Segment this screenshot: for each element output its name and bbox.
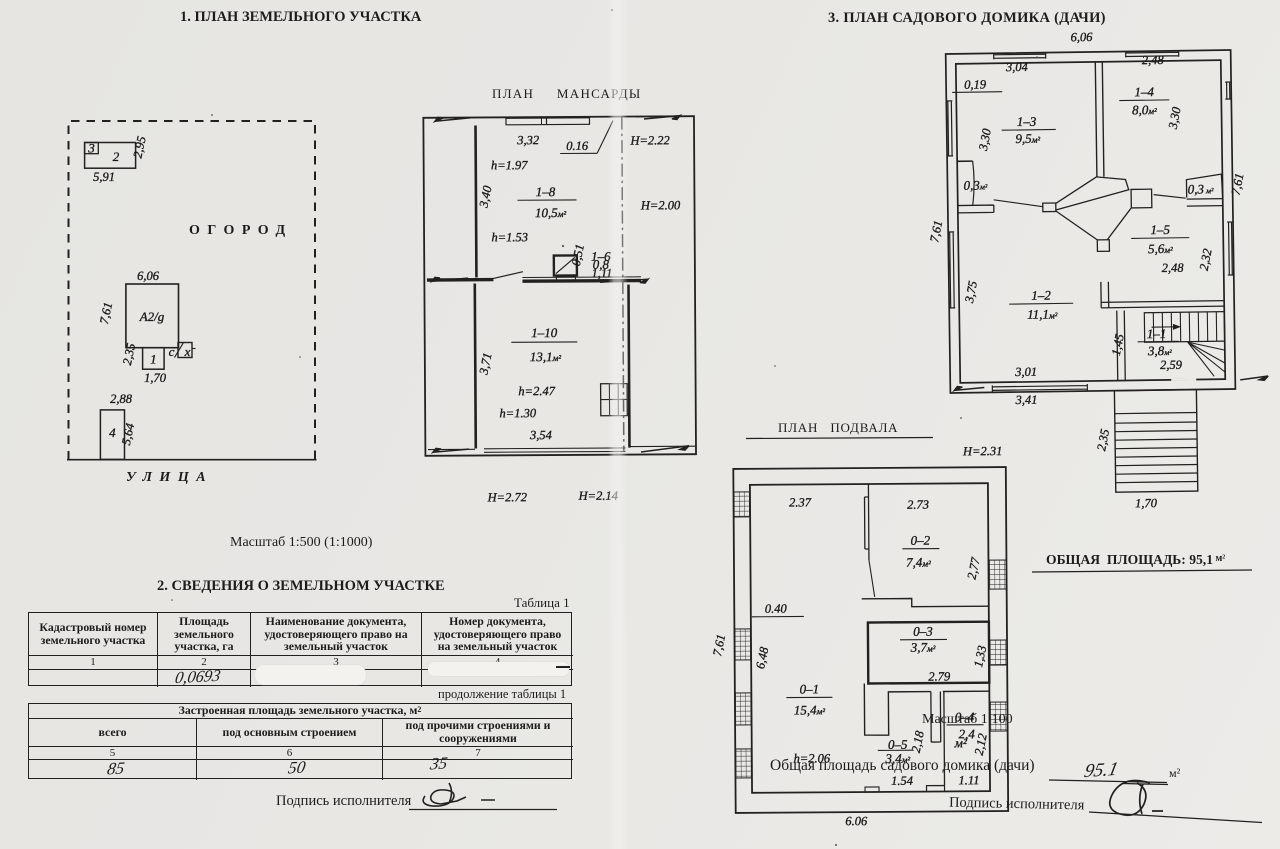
bottom bump [865, 787, 879, 792]
window left upper [946, 101, 953, 156]
window top-left [994, 53, 1046, 60]
svg-text:h=1.53: h=1.53 [491, 230, 528, 244]
mid wall left segment [427, 278, 493, 282]
section 1 title [180, 9, 421, 26]
svg-text:0,51: 0,51 [569, 243, 587, 267]
svg-text:1–1: 1–1 [1147, 326, 1167, 341]
svg-text:3,54: 3,54 [529, 428, 552, 442]
closet 0,3 left [957, 160, 972, 162]
svg-text:3,40: 3,40 [476, 184, 494, 210]
basement inner wall [750, 483, 990, 793]
svg-text:3,7м²: 3,7м² [910, 640, 936, 655]
room 1-5 left wall stub [1101, 282, 1109, 308]
svg-text:7,4м²: 7,4м² [906, 555, 931, 570]
door to closet right [1154, 194, 1186, 198]
svg-text:2,32: 2,32 [1197, 247, 1215, 271]
entry step [927, 785, 945, 791]
svg-text:1,33: 1,33 [971, 644, 989, 668]
svg-text:Н=2.00: Н=2.00 [640, 198, 681, 212]
chimney [554, 255, 577, 275]
window left lower [948, 232, 955, 308]
svg-text:9,5м²: 9,5м² [1015, 131, 1040, 146]
svg-text:6,06: 6,06 [137, 269, 160, 283]
window right small [1225, 82, 1231, 99]
svg-text:2.73: 2.73 [907, 498, 929, 512]
svg-text:7,61: 7,61 [927, 219, 945, 243]
svg-text:3,32: 3,32 [516, 133, 539, 147]
closet 0,3 right [1186, 174, 1222, 198]
basement window left 3 [735, 693, 752, 725]
svg-text:3,75: 3,75 [962, 280, 980, 305]
table 1 cadastral info [28, 612, 572, 686]
handwritten 85 [106, 759, 126, 779]
svg-text:с: с [169, 344, 175, 359]
svg-text:5,6м²: 5,6м² [1148, 241, 1173, 256]
building 2 [85, 143, 136, 169]
svg-text:2,95: 2,95 [130, 135, 148, 159]
svg-text:4: 4 [109, 425, 116, 440]
svg-text:2,59: 2,59 [1160, 358, 1183, 372]
window right main [1227, 222, 1234, 275]
entry opening in bottom wall [1171, 378, 1196, 381]
signature squiggle bottom right [1110, 781, 1163, 816]
svg-text:h=1.97: h=1.97 [491, 158, 528, 172]
room 0-4 left wall [943, 691, 946, 784]
wall below closet [1187, 199, 1223, 207]
room 1-5 bottom wall [1101, 301, 1224, 308]
svg-text:2,77: 2,77 [965, 556, 983, 581]
wall end tick bottom-left corner [954, 386, 984, 390]
svg-text:1.11: 1.11 [958, 773, 979, 787]
svg-text:ОГОРОД: ОГОРОД [189, 223, 293, 238]
svg-text:15,4м²: 15,4м² [794, 702, 826, 717]
svg-text:6.06: 6.06 [845, 814, 868, 828]
underline signature bottom right [1089, 812, 1262, 823]
building A2/g [126, 284, 179, 348]
scale note 1:100 [922, 712, 1013, 728]
interior wall 1-3/1-4 [1095, 62, 1104, 177]
svg-text:11,1м²: 11,1м² [1027, 306, 1058, 321]
room 1-10 left wall [475, 284, 476, 449]
underline total area [1032, 570, 1252, 572]
svg-text:1: 1 [150, 352, 157, 367]
underline basement title [746, 438, 933, 439]
svg-text:3: 3 [87, 141, 95, 156]
bottom wall inner line right [630, 445, 695, 447]
svg-text:1,45: 1,45 [1109, 333, 1127, 357]
svg-text:7,61: 7,61 [1229, 172, 1247, 196]
stairwell funnel [1043, 203, 1056, 212]
svg-text:2,48: 2,48 [1142, 53, 1165, 67]
svg-text:0–5: 0–5 [888, 737, 908, 752]
svg-text:3,71: 3,71 [476, 351, 494, 376]
svg-text:1,70: 1,70 [1135, 496, 1158, 510]
wall end tick mid-right [600, 279, 648, 283]
svg-text:1–2: 1–2 [1031, 288, 1051, 303]
basement outer wall [733, 467, 1008, 813]
svg-text:0,3м²: 0,3м² [964, 177, 989, 192]
svg-text:2,35: 2,35 [1094, 428, 1112, 452]
whiteout col4 leftover dash [556, 666, 570, 668]
plot boundary dashed [69, 121, 316, 460]
svg-text:1–4: 1–4 [1134, 84, 1154, 99]
svg-text:3,01: 3,01 [1014, 365, 1037, 379]
section 2 title [157, 578, 445, 595]
basement window left 2 [734, 629, 751, 660]
wall end tick bottom-left [433, 448, 469, 452]
room 1-10 bottom double line [484, 447, 625, 450]
outside staircase [1114, 390, 1197, 493]
house total area line [770, 757, 1035, 775]
table 1 continuation caption [438, 687, 566, 702]
room 1-10 right wall [627, 285, 631, 448]
svg-text:0–3: 0–3 [913, 624, 933, 639]
total area line [1046, 552, 1225, 568]
svg-text:А2/g: А2/g [139, 309, 165, 324]
door leaf [493, 272, 523, 279]
svg-text:6,06: 6,06 [1070, 30, 1093, 44]
svg-text:0,3 м²: 0,3 м² [1188, 181, 1215, 196]
window bottom [992, 384, 1087, 392]
svg-text:Н=2.72: Н=2.72 [487, 490, 527, 504]
stairs direction arrow [1151, 325, 1179, 330]
svg-text:УЛИЦА: УЛИЦА [126, 470, 213, 485]
whiteout patch col3 [255, 665, 366, 685]
roof edge dash-dot line [622, 117, 624, 451]
room 0-2 door leaf [869, 560, 875, 597]
svg-text:3,04: 3,04 [1005, 60, 1028, 74]
svg-text:3,30: 3,30 [1165, 105, 1183, 131]
svg-text:1–10: 1–10 [531, 325, 558, 340]
svg-text:0–4: 0–4 [955, 709, 975, 724]
svg-text:м²: м² [1169, 766, 1181, 780]
svg-text:3,30: 3,30 [976, 127, 994, 153]
attic outer wall [423, 116, 696, 456]
svg-text:7,61: 7,61 [710, 633, 728, 657]
svg-text:10,5м²: 10,5м² [535, 205, 567, 220]
scale note 1:500 [230, 535, 372, 551]
basement window right 3 [989, 702, 1007, 731]
whiteout patch col4 [428, 662, 569, 676]
signature squiggle section 2 [423, 783, 495, 806]
svg-text:2.79: 2.79 [928, 669, 951, 683]
svg-text:2: 2 [113, 149, 120, 164]
scan specks [171, 9, 1038, 846]
svg-text:8,0м²: 8,0м² [1132, 102, 1157, 117]
svg-text:0,19: 0,19 [964, 77, 987, 91]
handwritten 95.1 [1082, 759, 1120, 782]
svg-text:3,8м²: 3,8м² [1147, 343, 1173, 358]
svg-text:х: х [184, 344, 191, 359]
table 1 caption [514, 595, 570, 611]
svg-text:0–2: 0–2 [911, 533, 931, 548]
underline signature section 2 [409, 809, 557, 811]
handwritten 0,0693 [174, 666, 222, 687]
svg-text:5,91: 5,91 [93, 170, 115, 184]
svg-text:2,12: 2,12 [972, 732, 990, 756]
stairs 1-1 treads [1144, 312, 1224, 343]
signature label section 2 [276, 793, 411, 810]
house outer wall outline [946, 50, 1236, 393]
stair room left wall [1117, 311, 1125, 381]
bottom wall inner line left [428, 448, 475, 450]
building 1 [143, 348, 165, 370]
svg-text:5,64: 5,64 [119, 422, 137, 446]
wall end tick top-left [435, 117, 471, 121]
corridor wall double [931, 692, 941, 743]
scan seam vertical light band [608, 0, 628, 849]
underline house total area with handwritten 95.1 [1049, 780, 1167, 783]
building 3 inset [85, 143, 99, 154]
door line to stairwell [994, 199, 1043, 207]
svg-text:h=2.47: h=2.47 [518, 384, 555, 398]
svg-text:2,88: 2,88 [110, 392, 133, 406]
building 4 [100, 410, 124, 460]
svg-text:6,48: 6,48 [753, 645, 771, 670]
svg-text:2,48: 2,48 [1162, 261, 1185, 275]
basement window left 4 [735, 749, 752, 778]
svg-text:h=1.30: h=1.30 [499, 406, 536, 420]
wall end tick top-right [644, 116, 680, 120]
handwritten 50 [287, 758, 307, 778]
signature label bottom right [949, 795, 1085, 815]
svg-text:7,61: 7,61 [97, 301, 115, 325]
stairs in 1-10 [601, 384, 628, 416]
handwritten 35 [428, 754, 449, 774]
wall 0-1 / 0-5 [864, 683, 989, 736]
wall end tick bottom-right corner [1240, 376, 1268, 381]
wall end tick bottom-right [641, 446, 689, 452]
mid wall right segment [522, 279, 640, 283]
basement window left 1 [733, 492, 750, 517]
window top-right [1126, 51, 1179, 58]
svg-text:Н=2.22: Н=2.22 [629, 133, 669, 147]
house inner wall outline [956, 60, 1225, 383]
svg-text:95.1: 95.1 [1082, 759, 1120, 782]
basement window right 2 [989, 640, 1007, 665]
basement plan title [778, 420, 898, 436]
svg-text:3,41: 3,41 [1014, 393, 1037, 407]
basement window right 1 [988, 560, 1006, 589]
section 3 title [828, 10, 1106, 27]
svg-text:3,4м²: 3,4м² [884, 751, 910, 766]
shed c/x hatched [178, 343, 192, 358]
svg-text:0–1: 0–1 [800, 681, 820, 696]
room 0-3 box [868, 622, 989, 684]
wall end tick mid-left [432, 277, 468, 281]
svg-text:13,1м²: 13,1м² [530, 349, 562, 364]
svg-text:1–5: 1–5 [1150, 222, 1170, 237]
street boundary line [67, 459, 317, 461]
stairs winder diagonals [1188, 342, 1225, 377]
svg-text:2.37: 2.37 [789, 495, 812, 509]
room 0-2 left wall [864, 484, 869, 560]
svg-text:h=2.06: h=2.06 [793, 751, 830, 765]
table 2 built-up area [28, 703, 572, 779]
svg-text:1–8: 1–8 [536, 184, 556, 199]
svg-text:1.54: 1.54 [891, 774, 913, 788]
svg-text:Н=2.31: Н=2.31 [962, 444, 1002, 458]
svg-text:м²: м² [954, 735, 968, 750]
room 1-8 left wall [474, 126, 478, 278]
attic top window [506, 118, 590, 125]
svg-text:1–3: 1–3 [1017, 114, 1037, 129]
svg-text:2,35: 2,35 [120, 342, 138, 366]
svg-text:0.40: 0.40 [765, 602, 788, 616]
room 0-2 bottom wall [862, 598, 989, 607]
attic plan title [492, 86, 642, 102]
svg-text:1,70: 1,70 [144, 371, 167, 385]
svg-text:0.16: 0.16 [566, 139, 589, 153]
